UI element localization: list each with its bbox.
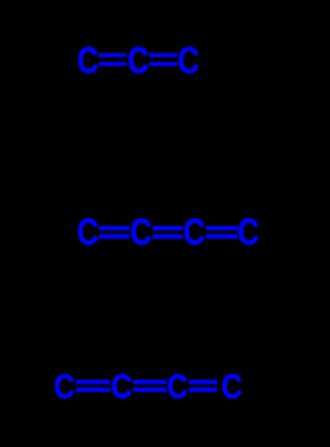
molecule 2: C4 cumulene C=C=C=C [77, 211, 259, 253]
double bond C3=C4 [206, 226, 238, 239]
svg-text:C: C [237, 211, 259, 253]
svg-text:C: C [183, 211, 205, 253]
double bond C1=C2 [99, 226, 130, 239]
molecule 3: C4 cumulene C=C=C=C [54, 367, 243, 406]
svg-text:C: C [128, 41, 149, 82]
svg-text:C: C [178, 41, 199, 82]
double bond C1=C2 [99, 53, 127, 66]
double bond C2=C3 [149, 53, 177, 66]
molecule 1: C3 cumulene C=C=C [77, 41, 199, 82]
double bond C1=C2 [76, 380, 111, 392]
svg-text:C: C [130, 211, 152, 253]
svg-text:C: C [111, 367, 132, 406]
svg-text:C: C [54, 367, 75, 406]
svg-text:C: C [77, 41, 98, 82]
svg-text:C: C [167, 367, 188, 406]
double bond C2=C3 [133, 380, 167, 392]
double bond C3=C4 [189, 380, 218, 392]
svg-text:C: C [222, 367, 243, 406]
svg-text:C: C [77, 211, 99, 253]
double bond C2=C3 [152, 226, 182, 239]
